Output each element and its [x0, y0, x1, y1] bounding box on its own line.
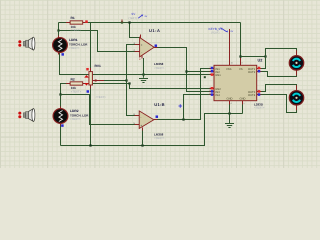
state square U1:A out blue: [155, 44, 158, 47]
state square OUT4 blue: [258, 93, 261, 96]
wire U1:B output to IN1: [157, 69, 210, 120]
wire 9V top rail: [59, 22, 241, 24]
node pot gnd junction: [89, 144, 91, 146]
wire U1:A output down: [157, 48, 210, 92]
svg-text:<TEXT>: <TEXT>: [71, 89, 82, 93]
state square OUT2 blue: [258, 70, 261, 73]
motor M1: [289, 50, 303, 75]
node wiper junction: [125, 79, 127, 81]
svg-text:<TEXT>: <TEXT>: [154, 136, 165, 140]
op-amp U1:A: [134, 28, 165, 70]
wire U1 pin8 supply: [130, 23, 141, 38]
potentiometer RV1: [84, 64, 106, 99]
svg-text:LDR2: LDR2: [70, 109, 79, 113]
state square OUT3 red: [258, 90, 261, 93]
state square LDR2 bottom blue: [61, 124, 64, 127]
wire 9V drop to VS: [240, 23, 242, 59]
state square U1:B out blue: [156, 115, 159, 118]
svg-text:<TEXT>: <TEXT>: [154, 66, 165, 70]
wire RV1 bottom to gnd rail: [90, 85, 92, 146]
node U1:B pin4 gnd junction: [141, 144, 143, 146]
resistor R2: [66, 77, 86, 93]
node terminal 9V junction: [121, 21, 123, 23]
svg-text:R2: R2: [71, 77, 75, 81]
wire OUT4 to motor2 bottom: [261, 95, 297, 113]
op-amp U1:B: [134, 102, 165, 140]
node LDR1 divider junction: [57, 29, 59, 31]
wire LDR2 node to U1:B pin5: [61, 95, 136, 125]
node LDR2 divider junction: [59, 93, 61, 95]
wire IN4 branch: [184, 95, 210, 120]
torch 1: [18, 37, 35, 50]
node gnd tap on rail: [142, 73, 144, 75]
state square IN2 blue: [211, 70, 214, 73]
state square LDR1 bottom blue: [61, 53, 64, 56]
wire gnd stub under IC: [229, 114, 231, 124]
wire OUT2 to motor1 bottom: [261, 70, 297, 77]
node stray blob left of EN1: [204, 76, 206, 78]
background grid: [0, 0, 320, 168]
state square EN2 red: [211, 87, 214, 90]
wire OUT1 to motor1 top: [261, 49, 297, 69]
marker blue cross near U1:B: [179, 104, 183, 108]
svg-text:+: +: [140, 124, 142, 128]
power terminal 9V top: [122, 12, 148, 22]
svg-text:OUT4: OUT4: [248, 94, 256, 97]
wire IC GND pins drop: [230, 101, 243, 114]
power terminal KEYB 9V at IC: [209, 27, 234, 55]
svg-text:+: +: [141, 43, 143, 47]
svg-text:<TEXT>: <TEXT>: [254, 106, 265, 110]
svg-text:U2: U2: [258, 58, 263, 62]
svg-text:<TEXT>: <TEXT>: [69, 46, 80, 50]
node pin8 rail junction: [128, 21, 130, 23]
svg-text:<TEXT>: <TEXT>: [70, 117, 81, 121]
node IN4 branch junction: [182, 118, 184, 120]
svg-text:-: -: [141, 50, 142, 54]
wire bottom gnd rail: [61, 114, 243, 146]
state square IN4 blue: [211, 93, 214, 96]
resistor R1: [66, 16, 88, 32]
svg-text:OUT2: OUT2: [248, 71, 256, 74]
svg-text:<TEXT>: <TEXT>: [96, 95, 107, 99]
svg-text:VSS: VSS: [226, 68, 232, 71]
wire VS pin red: [240, 58, 242, 65]
svg-text:GND: GND: [227, 98, 233, 101]
wire R2 left lead: [61, 84, 71, 95]
svg-text:GND: GND: [240, 98, 246, 101]
wire LDR2 top pin: [60, 95, 62, 110]
wire R1 left lead down: [58, 23, 60, 31]
svg-text:KEYB_9V: KEYB_9V: [209, 27, 224, 31]
svg-text:U1:A: U1:A: [149, 28, 160, 33]
wire LDR1 bottom to EN1 rail: [60, 53, 210, 75]
wire RV1 top feed: [90, 23, 92, 72]
wire LDR2 bottom drop: [60, 123, 62, 146]
svg-text:EN1: EN1: [216, 74, 222, 77]
svg-text:-: -: [140, 115, 141, 119]
node IC gnd junction: [228, 112, 230, 114]
svg-text:RV1: RV1: [95, 64, 102, 68]
IC U2 L293D: [209, 58, 265, 109]
state square RV1 bottom blue: [87, 90, 90, 93]
svg-text:R1: R1: [71, 16, 75, 20]
state square R1 right red: [85, 20, 88, 23]
svg-text:<TEXT>: <TEXT>: [71, 28, 82, 32]
wire terminal2 to VSS (pin, red): [229, 55, 231, 65]
ground IC: [225, 124, 234, 128]
LDR2: [53, 107, 89, 126]
svg-text:VS: VS: [239, 68, 243, 71]
svg-text:(TEXT): (TEXT): [129, 17, 137, 20]
node IN2 branch junction: [185, 70, 187, 72]
wire IN2 branch: [187, 71, 210, 73]
state square OUT1 red: [258, 67, 261, 70]
node EN2 branch junction: [128, 82, 130, 84]
svg-text:IN4: IN4: [216, 94, 221, 97]
wire LDR1 top pin: [58, 31, 60, 39]
motor M2: [289, 85, 303, 110]
wire 9V to motor feed: [241, 56, 266, 58]
torch 2: [18, 109, 35, 122]
LDR1: [53, 36, 89, 55]
wire OUT3 to motor2 top: [261, 85, 297, 92]
ground op-amp A: [139, 79, 148, 83]
wire EN2 branch: [130, 84, 210, 89]
state square IN3 blue: [211, 90, 214, 93]
state square EN1 red: [211, 73, 214, 76]
svg-text:U1:B: U1:B: [154, 102, 165, 107]
wire U1:B pin4 drop: [142, 130, 144, 146]
state square IN1 blue: [211, 67, 214, 70]
node motor feed junction: [264, 55, 266, 57]
svg-text:LDR1: LDR1: [69, 38, 78, 42]
svg-text:(TEXT): (TEXT): [211, 31, 219, 34]
wire node to U1:A pin2: [59, 31, 136, 52]
wire R2 right to EN2 link: [82, 83, 129, 85]
state square RV1 top red: [86, 68, 89, 71]
wire RV1 wiper link: [103, 80, 127, 82]
wire U1:A pin4 to ground: [143, 58, 145, 78]
wire V1 pin3-pin6 vertical: [127, 45, 136, 116]
node VS junction: [239, 55, 241, 57]
